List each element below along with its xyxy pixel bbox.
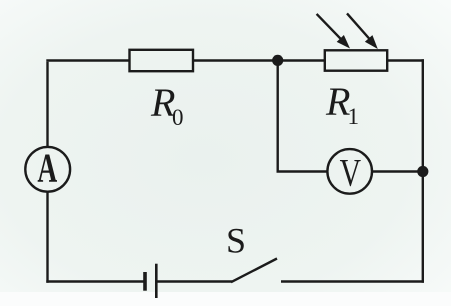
wire voltmeter to node B (372, 170, 423, 172)
wire node A to R1 (278, 59, 326, 61)
svg-text:V: V (340, 152, 361, 195)
wire switch to bottom-right corner (281, 280, 424, 282)
battery B1 (145, 264, 156, 298)
switch S (231, 259, 277, 283)
node A (junction dot) (272, 55, 283, 66)
wire node A down to voltmeter (278, 60, 328, 171)
wire R0 to node A (193, 59, 278, 61)
wire R1 to top-right corner (387, 59, 424, 61)
wire top-right corner to node B (422, 59, 424, 171)
wire top-left corner to ammeter (46, 62, 48, 148)
svg-text:A: A (37, 145, 57, 191)
svg-text:1: 1 (348, 104, 360, 129)
voltmeter V (327, 149, 372, 195)
svg-text:S: S (226, 221, 246, 261)
photoresistor R1 (317, 13, 388, 70)
node B (junction dot) (417, 166, 428, 177)
label R1 (325, 79, 359, 129)
wire node B to bottom-right corner (422, 172, 424, 283)
svg-text:0: 0 (172, 105, 184, 130)
wire battery to switch (156, 280, 232, 282)
wire bottom-left corner to battery (46, 280, 145, 282)
wire top: left corner to R0 (46, 59, 130, 61)
ammeter A (25, 145, 70, 192)
label R0 (150, 80, 184, 130)
wire ammeter to bottom-left corner (46, 192, 48, 283)
resistor R0 (130, 50, 194, 71)
